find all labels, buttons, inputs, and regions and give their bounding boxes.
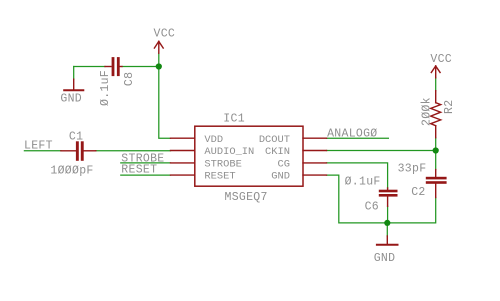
svg-text:C6: C6 <box>365 201 379 214</box>
svg-text:RESET: RESET <box>204 171 235 183</box>
svg-text:C2: C2 <box>411 186 425 199</box>
svg-text:ANALOGØ: ANALOGØ <box>327 128 377 141</box>
svg-text:GND: GND <box>60 93 82 106</box>
svg-text:LEFT: LEFT <box>24 140 53 153</box>
svg-text:DCOUT: DCOUT <box>259 134 290 146</box>
svg-text:R2: R2 <box>443 100 456 114</box>
svg-text:VCC: VCC <box>154 27 176 40</box>
svg-text:RESET: RESET <box>121 163 157 176</box>
svg-text:CG: CG <box>278 159 290 171</box>
svg-text:VCC: VCC <box>430 53 452 66</box>
svg-text:Ø.1uF: Ø.1uF <box>345 176 381 189</box>
svg-text:AUDIO_IN: AUDIO_IN <box>204 146 254 158</box>
svg-text:1ØØØpF: 1ØØØpF <box>50 164 93 177</box>
svg-text:IC1: IC1 <box>223 113 245 126</box>
svg-text:GND: GND <box>271 171 290 183</box>
svg-text:C8: C8 <box>123 72 136 86</box>
svg-text:VDD: VDD <box>204 134 223 146</box>
svg-text:2ØØk: 2ØØk <box>420 97 433 126</box>
svg-text:GND: GND <box>374 252 396 265</box>
svg-text:CKIN: CKIN <box>265 146 290 158</box>
svg-text:MSGEQ7: MSGEQ7 <box>225 191 268 204</box>
svg-text:C1: C1 <box>69 131 83 144</box>
svg-text:33pF: 33pF <box>398 163 427 176</box>
svg-text:STROBE: STROBE <box>204 159 241 171</box>
svg-text:Ø.1uF: Ø.1uF <box>99 70 112 106</box>
